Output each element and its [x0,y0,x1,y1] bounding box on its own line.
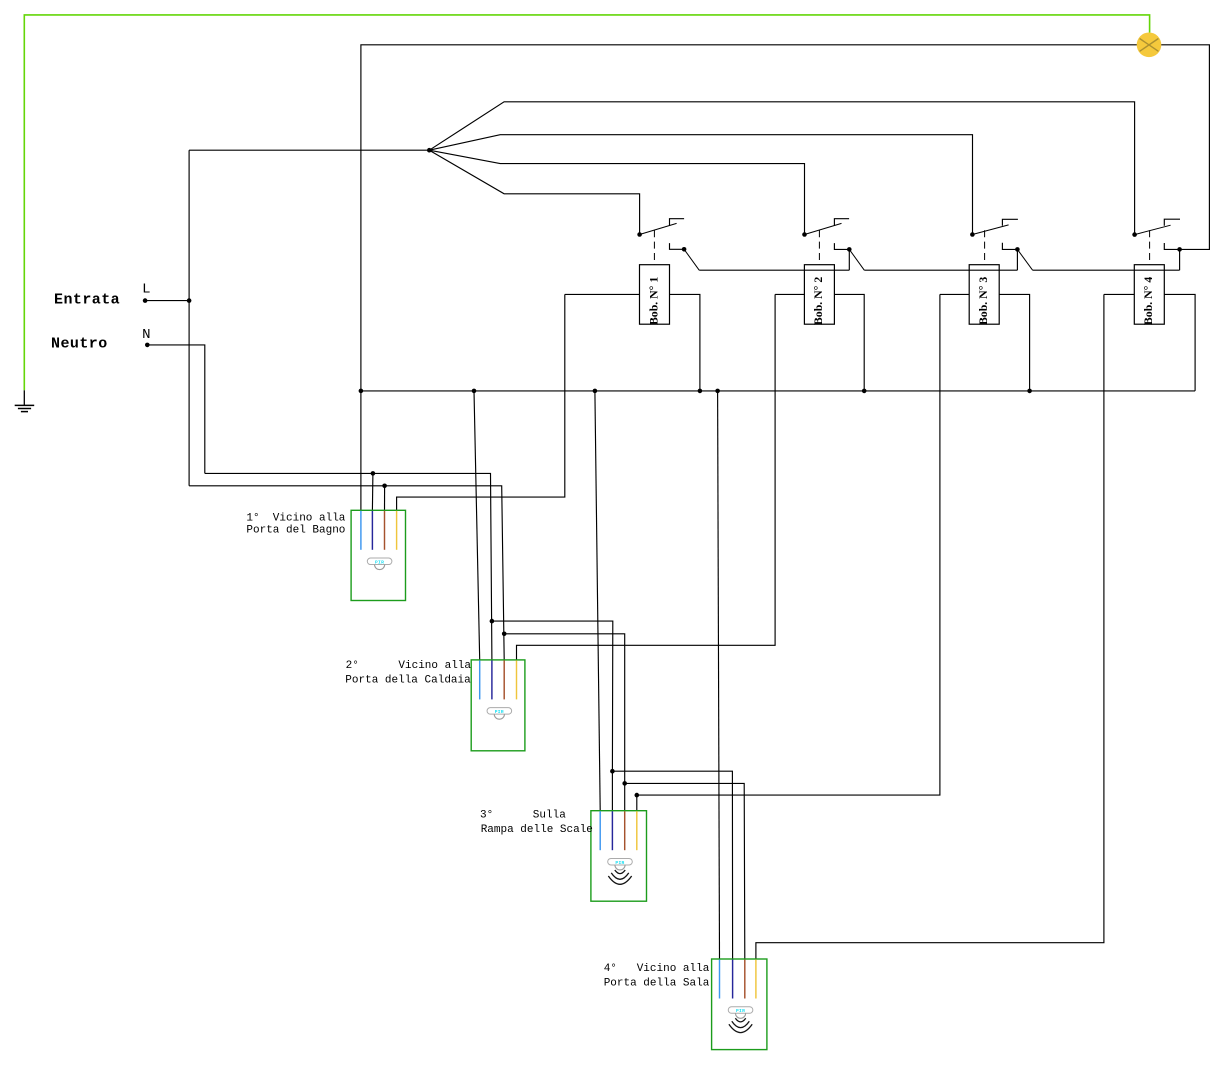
wire box3-box4 brown link [625,783,745,959]
relay coil Bob. N° 4 [1134,265,1164,325]
wire bus to box4 blue [718,391,720,959]
svg-text:Entrata: Entrata [54,291,120,308]
node L junction [187,298,192,303]
wire coil 4 to box4 gold [756,294,1104,959]
wire coil 1 right terminal to neutral bus [670,294,700,391]
relay coil Bob. N° 2 [804,265,834,325]
label L [142,282,150,298]
wire coil 2 right terminal to neutral bus [834,294,864,391]
svg-text:Porta della Sala: Porta della Sala [604,978,710,990]
wire coil 2 left terminal [775,293,804,295]
node box1 navy tap [371,471,376,476]
switch S1 upper contact [637,219,684,237]
node box3 gold corner [635,793,640,798]
svg-text:2° Vicino alla: 2° Vicino alla [346,660,472,672]
node N terminal [145,343,150,348]
wire coil 4 left terminal [1104,293,1134,295]
node neutral bus junction [698,389,703,394]
label box 2 [345,660,471,687]
lamp E1 [1137,33,1162,58]
svg-text:3° Sulla: 3° Sulla [480,810,566,822]
PIR box 3 [591,811,647,902]
svg-text:1° Vicino alla: 1° Vicino alla [246,512,345,524]
switch S4 lower contact [1164,243,1182,270]
wire coil 3 right terminal to neutral bus [1000,294,1030,391]
wire lamp left to box1 blue drop [361,45,1149,511]
wire N lead and riser [147,345,205,474]
switch S1 linkage (dashed) [653,230,655,265]
svg-text:Bob. N° 2: Bob. N° 2 [811,277,825,325]
svg-text:N: N [142,327,150,343]
svg-text:PIR: PIR [615,860,624,866]
node box3 navy tap [610,769,615,774]
node neutral bus junction [715,389,720,394]
switch S2 upper contact [802,219,849,237]
wire PE (green earth wire from ground to lamp) [24,15,1149,390]
label Neutro [51,335,108,352]
wire fan to switch 4 [429,102,1134,235]
label box 4 [604,963,710,990]
node neutral bus junction [472,389,477,394]
wire contact chain S2-S3 [864,269,1017,271]
wire box1 navy drop [371,473,374,510]
wire lamp right return to switch chain [1149,45,1210,250]
switch S4 upper contact [1132,219,1180,237]
wire box2-box3 navy link [492,621,613,811]
svg-text:Rampa delle Scale: Rampa delle Scale [481,824,593,836]
relay coil Bob. N° 3 [969,265,999,325]
label box 3 [480,810,593,837]
svg-text:Bob. N° 4: Bob. N° 4 [1141,277,1155,325]
svg-text:Neutro: Neutro [51,335,108,352]
label box 1 [246,512,345,536]
wire neutro horizontal to boxes [205,473,492,660]
wire L to fan node [189,149,429,151]
ground [15,390,35,411]
wire contact chain S3-S4 [1033,269,1180,271]
wire bus to box3 blue [595,391,600,811]
wire box1 brown drop [384,486,386,511]
node box3 brown tap [622,781,627,786]
wire bus to box2 blue [474,391,480,660]
wire L riser [188,150,190,486]
switch S3 lower contact [1002,243,1032,270]
switch S4 linkage (dashed) [1149,230,1151,265]
wire neutral bus [361,390,1195,392]
svg-text:PIR: PIR [736,1008,745,1014]
svg-text:Porta del Bagno: Porta del Bagno [246,525,345,537]
wire box2-box3 brown link [504,634,625,811]
node L terminal [143,298,148,303]
PIR box 1 [351,510,405,600]
relay coil Bob. N° 1 [640,265,670,325]
node box2 brown tap [502,632,507,637]
switch S1 lower contact [670,243,700,270]
wire coil 4 right terminal to neutral bus [1164,294,1195,391]
switch S3 upper contact [970,219,1018,237]
node neutral bus junction [862,389,867,394]
svg-text:L: L [142,282,150,298]
wire coil 3 to box3 gold [637,294,940,810]
switch S3 linkage (dashed) [984,230,986,265]
node neutral bus junction [359,389,364,394]
svg-text:Porta della Caldaia: Porta della Caldaia [345,675,471,687]
switch S2 linkage (dashed) [818,230,820,265]
svg-text:PIR: PIR [375,559,384,565]
PIR box 2 [471,660,525,751]
switch S2 lower contact [834,243,864,270]
wire box3-box4 navy link [612,771,732,959]
svg-text:Bob. N° 3: Bob. N° 3 [976,277,990,325]
wire fan to switch 1 [429,150,639,234]
wire coil 1 to box1 gold [397,294,565,510]
node box1 brown tap [382,484,387,489]
wire coil 1 left terminal [565,293,640,295]
PIR box 4 [712,959,767,1050]
wire L lead [145,300,189,302]
node neutral bus junction [593,389,598,394]
svg-text:4° Vicino alla: 4° Vicino alla [604,963,710,975]
svg-text:PIR: PIR [495,709,504,715]
wire contact chain S1-S2 [699,269,849,271]
wire fan to switch 2 [429,150,804,234]
wire coil 3 left terminal [940,293,969,295]
node fan [427,148,432,153]
wire fan to switch 3 [429,135,972,235]
wire coil 2 to box2 gold [517,294,776,660]
svg-text:Bob. N° 1: Bob. N° 1 [646,277,660,325]
label N [142,327,150,343]
node box2 navy tap [490,619,495,624]
wire line horizontal to boxes [189,486,504,660]
node neutral bus junction [1027,389,1032,394]
label Entrata [54,291,120,308]
